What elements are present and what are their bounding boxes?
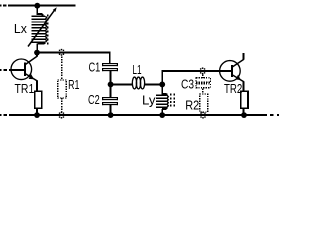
svg-text:C1: C1 [89, 60, 101, 74]
svg-text:TR2: TR2 [224, 82, 242, 96]
svg-text:Ly: Ly [142, 93, 156, 107]
svg-text:L1: L1 [132, 63, 141, 77]
svg-text:TR1: TR1 [15, 82, 35, 96]
svg-text:C2: C2 [88, 93, 100, 107]
svg-text:R2: R2 [185, 98, 199, 112]
svg-text:C3: C3 [181, 78, 194, 92]
svg-text:Lx: Lx [14, 22, 28, 36]
svg-text:R1: R1 [68, 78, 79, 92]
